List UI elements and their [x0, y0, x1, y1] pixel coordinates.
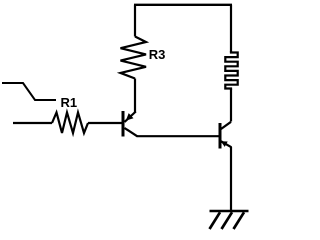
wire R3 top rail: [134, 5, 136, 37]
wire base Q1: [88, 122, 122, 124]
wire Q2 emitter to ground: [230, 147, 232, 211]
wire top: [134, 4, 232, 6]
svg-text:R1: R1: [61, 95, 78, 110]
pulse source V1 waveform symbol: [2, 83, 56, 100]
transistor Q2: [220, 122, 232, 149]
wire inductor to Q2 collector: [230, 89, 232, 122]
wire right rail to inductor: [230, 5, 232, 53]
wire R3 bottom to Q1 emitter: [134, 79, 136, 113]
resistor R3: [121, 37, 147, 79]
label R1: [61, 95, 78, 110]
wire collector wire Q1 to Q2 base: [137, 135, 219, 137]
label R3: [149, 47, 166, 62]
inductor L1: [225, 51, 237, 90]
svg-text:R3: R3: [149, 47, 166, 62]
wire input left: [13, 122, 52, 124]
transistor Q1: [123, 111, 138, 137]
resistor R1: [52, 113, 88, 134]
ground: [210, 211, 249, 229]
